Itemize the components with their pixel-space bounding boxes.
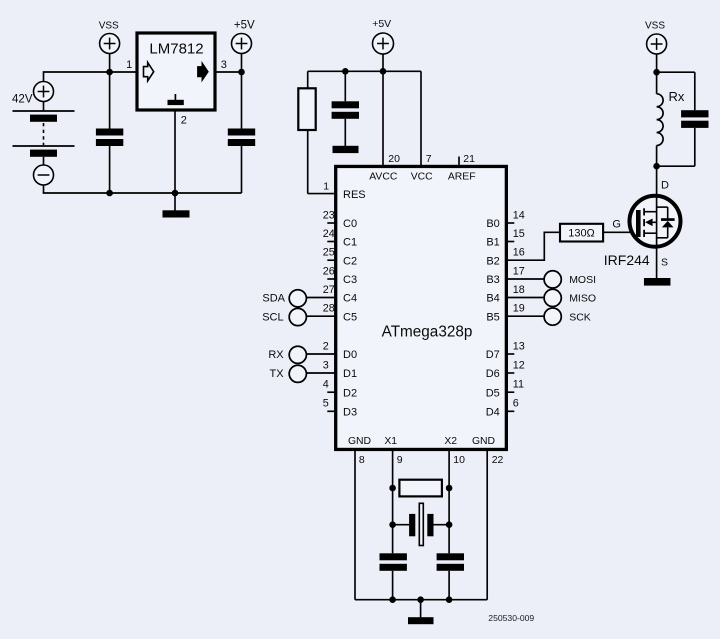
- svg-text:D4: D4: [486, 406, 500, 418]
- svg-text:SCK: SCK: [569, 311, 591, 323]
- svg-text:19: 19: [513, 303, 525, 315]
- svg-text:D7: D7: [486, 349, 500, 361]
- svg-text:RX: RX: [268, 349, 284, 361]
- svg-text:C0: C0: [343, 218, 357, 230]
- svg-text:8: 8: [359, 454, 365, 466]
- svg-text:LM7812: LM7812: [149, 41, 203, 58]
- svg-text:27: 27: [323, 284, 335, 296]
- svg-text:AREF: AREF: [448, 172, 476, 183]
- svg-text:D: D: [661, 180, 669, 192]
- svg-text:C2: C2: [343, 255, 357, 267]
- svg-text:B3: B3: [486, 274, 499, 286]
- svg-text:+5V: +5V: [372, 18, 391, 30]
- svg-text:6: 6: [513, 398, 519, 410]
- svg-text:9: 9: [397, 454, 403, 466]
- svg-text:10: 10: [453, 454, 465, 466]
- svg-text:VSS: VSS: [645, 21, 665, 32]
- svg-text:TX: TX: [270, 368, 285, 380]
- svg-text:SCL: SCL: [262, 311, 283, 323]
- svg-text:MOSI: MOSI: [569, 274, 596, 286]
- svg-text:D0: D0: [343, 349, 357, 361]
- svg-text:C5: C5: [343, 311, 357, 323]
- svg-text:B1: B1: [486, 237, 499, 249]
- svg-text:20: 20: [388, 153, 400, 165]
- svg-text:MISO: MISO: [569, 293, 596, 305]
- svg-text:14: 14: [513, 209, 525, 221]
- svg-text:1: 1: [126, 59, 132, 71]
- svg-text:D6: D6: [486, 368, 500, 380]
- svg-text:VCC: VCC: [411, 172, 433, 183]
- svg-text:4: 4: [323, 379, 329, 391]
- svg-text:250530-009: 250530-009: [488, 613, 534, 623]
- svg-text:C1: C1: [343, 237, 357, 249]
- svg-text:22: 22: [492, 454, 504, 466]
- svg-text:C4: C4: [343, 293, 357, 305]
- svg-text:42V: 42V: [12, 94, 33, 106]
- svg-text:25: 25: [323, 247, 335, 259]
- svg-text:D5: D5: [486, 387, 500, 399]
- svg-text:24: 24: [323, 228, 335, 240]
- svg-text:16: 16: [513, 247, 525, 259]
- svg-text:26: 26: [323, 265, 335, 277]
- svg-text:1: 1: [323, 180, 329, 192]
- svg-text:B5: B5: [486, 311, 499, 323]
- svg-text:B0: B0: [486, 218, 499, 230]
- svg-text:2: 2: [181, 114, 187, 126]
- svg-text:X1: X1: [384, 436, 397, 447]
- svg-text:3: 3: [221, 59, 227, 71]
- svg-text:2: 2: [323, 340, 329, 352]
- svg-text:D3: D3: [343, 406, 357, 418]
- svg-text:VSS: VSS: [99, 21, 119, 32]
- svg-text:Rx: Rx: [669, 89, 685, 104]
- svg-text:130Ω: 130Ω: [568, 228, 595, 240]
- svg-text:GND: GND: [348, 436, 371, 447]
- svg-text:SDA: SDA: [262, 293, 285, 305]
- svg-text:X2: X2: [444, 436, 457, 447]
- svg-text:ATmega328p: ATmega328p: [382, 324, 473, 341]
- svg-text:AVCC: AVCC: [369, 172, 398, 183]
- svg-text:B4: B4: [486, 293, 499, 305]
- svg-text:D2: D2: [343, 387, 357, 399]
- svg-text:7: 7: [426, 153, 432, 165]
- svg-text:17: 17: [513, 265, 525, 277]
- svg-text:S: S: [661, 256, 668, 268]
- svg-text:12: 12: [513, 359, 525, 371]
- svg-text:28: 28: [323, 303, 335, 315]
- svg-text:D1: D1: [343, 368, 357, 380]
- svg-text:+5V: +5V: [234, 20, 255, 32]
- svg-text:IRF244: IRF244: [604, 252, 650, 268]
- svg-text:GND: GND: [472, 436, 495, 447]
- svg-text:13: 13: [513, 340, 525, 352]
- svg-text:23: 23: [323, 209, 335, 221]
- svg-text:G: G: [612, 219, 621, 231]
- svg-text:3: 3: [323, 359, 329, 371]
- svg-text:5: 5: [323, 398, 329, 410]
- svg-text:RES: RES: [343, 189, 366, 201]
- svg-text:18: 18: [513, 284, 525, 296]
- svg-text:C3: C3: [343, 274, 357, 286]
- svg-text:21: 21: [463, 153, 475, 165]
- svg-text:15: 15: [513, 228, 525, 240]
- svg-text:B2: B2: [486, 255, 499, 267]
- svg-text:11: 11: [513, 379, 524, 391]
